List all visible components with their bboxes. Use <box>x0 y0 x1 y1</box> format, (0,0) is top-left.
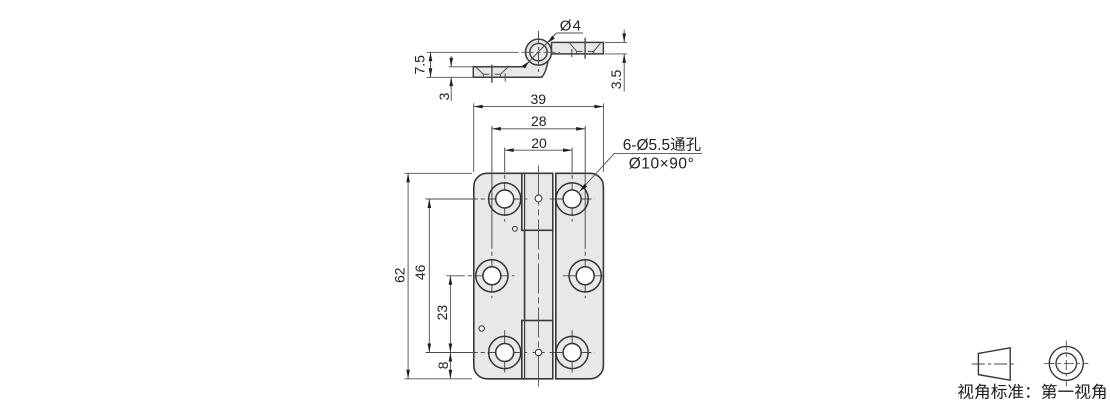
knuckle vertical centerline <box>538 31 540 73</box>
Ø4 arrowhead lower <box>522 61 529 68</box>
bottom-right hole crosshair <box>550 352 595 354</box>
cone front view outer circle <box>1049 346 1083 380</box>
hole bottom-right <box>556 336 588 368</box>
dimension 3.5 <box>605 30 627 92</box>
svg-text:28: 28 <box>531 113 547 129</box>
svg-text:Ø10×90°: Ø10×90° <box>629 155 695 172</box>
caption 视角标准：第一视角 <box>958 384 1106 400</box>
svg-text:7.5: 7.5 <box>412 55 428 75</box>
svg-text:23: 23 <box>434 305 450 321</box>
top-right hole crosshair <box>550 198 595 200</box>
mid-left hole crosshair <box>447 275 515 277</box>
right leaf <box>552 42 604 54</box>
leader 6-Ø5.5 <box>580 153 703 191</box>
svg-text:8: 8 <box>435 361 451 369</box>
hole bottom-left <box>489 336 521 368</box>
bottom-left hole crosshair <box>426 352 528 354</box>
dimension 3 <box>449 56 473 101</box>
dimension Ø4 leader <box>524 33 584 68</box>
rivet dot upper <box>513 226 518 231</box>
knuckle pin hole circle <box>530 43 547 60</box>
top pivot hole <box>535 195 542 202</box>
dimension 23 <box>449 276 451 353</box>
horizontal centerline / extension for 7.5 <box>427 51 560 53</box>
dimension 20 <box>505 149 572 151</box>
middle barrel strip <box>525 173 553 378</box>
dimension 7.5 <box>427 52 474 77</box>
short tick left leaf second col 505 <box>504 74 506 82</box>
short tick right leaf second col 572 <box>571 49 573 57</box>
svg-text:20: 20 <box>531 135 547 151</box>
bottom pivot short horizontal centerline <box>533 352 545 354</box>
mid-right hole crosshair <box>563 275 608 277</box>
svg-text:39: 39 <box>531 91 547 107</box>
leader arrowhead <box>580 184 588 192</box>
bottom pivot hole <box>535 349 541 355</box>
countersink cone mark right leaf (hole col 585) <box>570 38 601 59</box>
dimension 62 <box>405 173 473 378</box>
inner strip lines through knuckles <box>525 173 553 378</box>
dimension 28 <box>492 128 585 130</box>
svg-text:3: 3 <box>436 92 452 100</box>
svg-text:62: 62 <box>392 267 408 283</box>
label glyphs 通孔 <box>671 137 685 151</box>
Ø4 arrowhead upper <box>548 36 555 43</box>
cone side view <box>978 348 1010 380</box>
knuckle outer circle <box>526 39 552 65</box>
rivet dot lower <box>479 326 484 331</box>
dimension 46 <box>428 199 430 353</box>
svg-text:6-Ø5.5: 6-Ø5.5 <box>623 137 670 154</box>
svg-text:46: 46 <box>412 264 428 280</box>
countersink cone mark left leaf (hole col 492) <box>476 65 507 83</box>
left leaf outline <box>473 61 548 77</box>
top knuckle <box>522 173 553 230</box>
svg-text:3.5: 3.5 <box>608 70 624 90</box>
hole mid-left <box>476 260 508 292</box>
dimension 39 <box>474 103 604 172</box>
cone centerline <box>972 363 1017 365</box>
svg-text:Ø4: Ø4 <box>560 18 582 35</box>
right plate <box>556 173 604 378</box>
hole top-right <box>556 183 588 215</box>
hole crosshairs (dash-dot centerlines) <box>426 126 608 375</box>
hole top-left <box>489 183 521 215</box>
bottom knuckle <box>522 321 553 379</box>
left plate <box>474 173 525 378</box>
dimension 8 <box>449 353 451 379</box>
top-left hole crosshair <box>426 198 528 200</box>
circle crosshair <box>1044 341 1088 387</box>
cone front view inner circle <box>1056 353 1077 374</box>
pin centerline <box>538 166 540 387</box>
caption 视角标准：第一视角 (vector glyphs) <box>958 384 973 399</box>
left leaf fill <box>473 61 547 78</box>
hole mid-right <box>569 260 601 292</box>
